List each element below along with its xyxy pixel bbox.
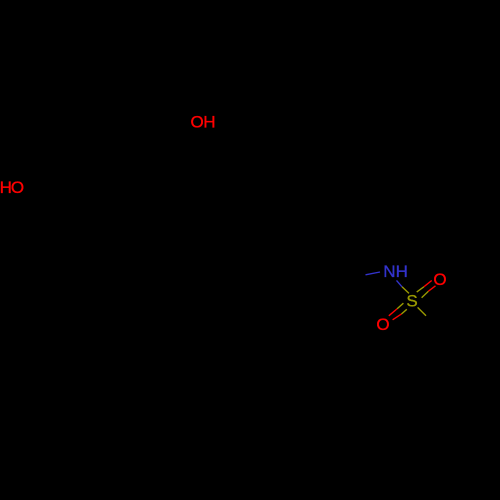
wire S=O lower bond line1 O half — [389, 309, 397, 316]
wire N-S bond, S half (olive) — [402, 287, 409, 294]
wire S=O upper bond line2 S half — [422, 291, 429, 298]
wire S=O lower bond line2 S half — [401, 309, 407, 314]
wire S=O upper bond line1 S half — [417, 287, 424, 292]
wire N-S bond, N half (blue) — [397, 280, 403, 286]
wire S=O upper bond line2 O half — [428, 286, 435, 291]
wire S=O lower bond line1 S half — [397, 303, 403, 309]
svg-text:S: S — [406, 292, 417, 311]
wire S=O upper bond line1 O half — [424, 281, 432, 287]
svg-text:NH: NH — [383, 262, 408, 281]
wire S-C bond, S half (olive) — [418, 307, 426, 315]
wire C-N bond, N half (blue) — [366, 272, 381, 275]
svg-text:OH: OH — [191, 113, 216, 132]
svg-text:HO: HO — [0, 178, 24, 197]
wire S=O lower bond line2 O half — [393, 314, 402, 320]
svg-text:O: O — [376, 315, 389, 334]
